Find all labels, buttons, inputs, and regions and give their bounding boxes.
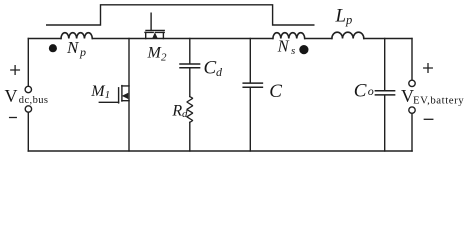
plus sign left: [11, 66, 20, 75]
resistor Rd: [187, 97, 193, 123]
wire right vertical lower: [411, 113, 413, 151]
wire C branch lower: [249, 88, 251, 151]
label Co: [354, 80, 374, 101]
wire Co branch lower: [384, 96, 386, 152]
wire left vertical lower: [27, 112, 29, 151]
wire left vertical upper: [27, 39, 29, 87]
label Np: [66, 38, 86, 59]
capacitor Co: [375, 91, 394, 95]
minus sign left: [10, 117, 17, 119]
svg-text:d: d: [216, 65, 223, 79]
wire M1 branch vertical: [128, 39, 130, 152]
svg-text:V: V: [5, 86, 18, 106]
svg-text:C: C: [204, 58, 217, 79]
wire top rail between Ns and Lp: [305, 38, 332, 40]
minus sign right: [424, 118, 433, 120]
svg-text:N: N: [66, 38, 80, 57]
svg-text:p: p: [345, 13, 352, 27]
svg-text:dc,bus: dc,bus: [19, 95, 49, 106]
wire top rail middle segment: [92, 38, 273, 40]
label Rd: [171, 103, 188, 120]
label M1: [90, 83, 110, 101]
terminal circle Vdc -: [25, 106, 31, 112]
svg-text:C: C: [269, 81, 282, 102]
svg-text:EV,battery: EV,battery: [413, 95, 464, 107]
winding Np: [61, 33, 92, 39]
wire Cd to Rd: [189, 68, 191, 96]
label Vdc,bus: [5, 86, 49, 106]
svg-text:d: d: [182, 108, 188, 120]
svg-text:C: C: [354, 80, 367, 101]
terminal circle Vdc +: [25, 86, 31, 92]
svg-text:s: s: [291, 45, 295, 57]
label Lp: [335, 6, 353, 27]
wire Cd-Rd branch upper: [189, 39, 191, 64]
svg-text:L: L: [335, 6, 347, 27]
wire bottom rail: [28, 150, 412, 152]
svg-text:p: p: [79, 45, 86, 59]
label Cd: [204, 58, 224, 79]
wire top rail left segment: [28, 38, 61, 40]
svg-text:N: N: [277, 37, 290, 56]
terminal circle VEV +: [409, 80, 415, 86]
transistor M2: [145, 13, 164, 38]
node dot Ns polarity: [299, 45, 308, 54]
plus sign right: [424, 64, 433, 73]
svg-text:1: 1: [105, 89, 111, 101]
wire Rd to bottom rail: [189, 122, 191, 151]
capacitor C: [243, 83, 262, 87]
svg-text:R: R: [171, 103, 182, 120]
wire transformer core link: [47, 5, 314, 25]
label VEV,battery: [401, 86, 464, 107]
svg-text:2: 2: [161, 52, 167, 64]
svg-text:o: o: [368, 84, 374, 98]
node dot Np polarity: [49, 44, 57, 52]
terminal circle VEV -: [409, 107, 415, 113]
wire C branch upper: [249, 39, 251, 83]
wire right vertical upper: [411, 39, 413, 81]
capacitor Cd: [180, 64, 200, 68]
wire Co branch upper: [384, 39, 386, 91]
inductor Lp: [332, 32, 364, 38]
label Ns: [277, 37, 296, 57]
wire top rail right segment: [364, 38, 412, 40]
label M2: [147, 45, 168, 64]
transistor M1: [99, 86, 129, 103]
winding Ns: [273, 33, 305, 39]
